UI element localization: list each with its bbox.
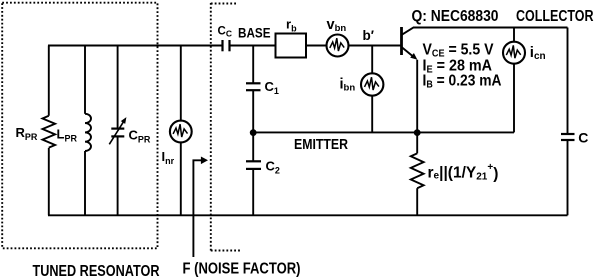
svg-text:C: C: [578, 130, 588, 146]
wire: top rail left section: [48, 45, 223, 47]
inductor LPR: [85, 46, 91, 216]
svg-text:F (NOISE FACTOR): F (NOISE FACTOR): [183, 261, 301, 278]
dashed box: tuned resonator boundary: [2, 3, 157, 249]
svg-text:TUNED RESONATOR: TUNED RESONATOR: [33, 263, 160, 280]
wire: collector rail: [413, 27, 568, 29]
svg-text:BASE: BASE: [238, 26, 271, 41]
capacitor C2: [246, 132, 261, 215]
svg-text:EMITTER: EMITTER: [294, 136, 348, 153]
svg-text:COLLECTOR: COLLECTOR: [516, 8, 594, 25]
junction dot at C1/C2 node: [250, 129, 257, 136]
svg-text:IB = 0.23 mA: IB = 0.23 mA: [423, 72, 502, 90]
wire: right rail lower: [567, 140, 569, 215]
resistor re: [411, 132, 424, 215]
wire: vbn to base bar through node b': [349, 45, 402, 47]
capacitor C1: [246, 83, 261, 132]
noise current source Inr: [170, 46, 192, 216]
wire: rb to vbn: [306, 45, 327, 47]
resistor rb (box): [276, 34, 307, 58]
junction dot at emitter node: [414, 129, 421, 136]
wire: bottom rail: [48, 214, 568, 216]
transistor Q: [402, 27, 418, 132]
dashed box: noise-factor boundary (partial): [211, 3, 241, 251]
wire: emitter rail: [253, 131, 514, 133]
wire: right rail upper: [567, 28, 569, 135]
node: C1/C2 branch from base: [252, 46, 254, 84]
capacitor CC: [223, 40, 276, 51]
noise voltage source vbn: [327, 35, 349, 57]
variable capacitor CPR: [109, 46, 126, 216]
svg-text:b′: b′: [363, 28, 374, 43]
noise current source ibn: [361, 46, 383, 133]
svg-text:Q: NEC68830: Q: NEC68830: [412, 8, 499, 25]
resistor RPR: [43, 46, 56, 216]
F noise-factor arrow: [193, 157, 208, 258]
noise current source icn: [503, 28, 525, 133]
capacitor C (output): [561, 134, 575, 140]
